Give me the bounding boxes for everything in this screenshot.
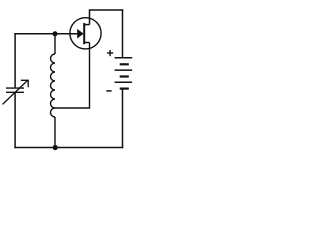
transistor Q1 (N-channel JFET) bbox=[70, 18, 101, 49]
battery positive sign bbox=[107, 50, 113, 56]
wire: source lead from transistor down and left to coil tap bbox=[55, 43, 90, 109]
node: junction of coil top with gate wire bbox=[53, 31, 58, 36]
wire: top wire from left rail to transistor gate bbox=[14, 33, 83, 35]
wire: right rail upper (to battery +) bbox=[122, 9, 124, 58]
battery negative sign bbox=[106, 90, 111, 92]
wire: coil top lead bbox=[54, 34, 56, 54]
inductor L1 (7 loops, tapped one loop above bottom) bbox=[51, 54, 56, 117]
wire: right rail lower (battery - to bottom rail) bbox=[122, 89, 124, 149]
node: junction of coil bottom with bottom rail bbox=[53, 145, 58, 150]
wire: left rail upper segment bbox=[14, 33, 16, 88]
wire: left rail lower segment bbox=[14, 92, 16, 148]
battery B1 (3 cells) bbox=[115, 58, 133, 89]
wire: bottom rail bbox=[14, 147, 123, 149]
wire: drain lead up and right to battery positive bbox=[90, 10, 124, 25]
variable capacitor C1 bbox=[3, 80, 29, 104]
wire: coil bottom lead bbox=[54, 117, 56, 148]
